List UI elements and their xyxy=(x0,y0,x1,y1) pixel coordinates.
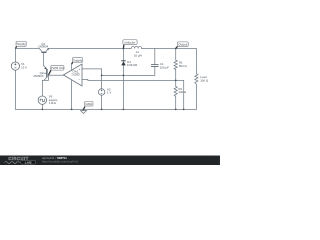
wire top rail right segment xyxy=(142,48,197,50)
wire feedback node horizontal xyxy=(102,74,155,76)
resistor R1 xyxy=(174,60,187,69)
diode D1 xyxy=(121,60,137,67)
inductor L1 xyxy=(131,46,141,57)
svg-text:+: + xyxy=(78,67,80,71)
wire left branch vertical (V1) xyxy=(14,48,16,109)
wire R1 R2 branch xyxy=(175,49,177,110)
wire bottom rail xyxy=(15,108,196,110)
wire V2 branch xyxy=(101,75,103,109)
wire C1 branch xyxy=(154,49,156,76)
svg-text:2N3904: 2N3904 xyxy=(38,45,49,49)
svg-text:1 V: 1 V xyxy=(107,90,111,94)
resistor R2 xyxy=(174,86,187,96)
svg-text:http://circuitlab.com/c/xq67s2: http://circuitlab.com/c/xq67s2 xyxy=(42,159,79,163)
node tag Supply (top left) xyxy=(16,41,27,48)
wire V3 bottom xyxy=(41,104,43,109)
wire diode branch xyxy=(122,49,124,110)
svg-text:TL082: TL082 xyxy=(71,73,80,77)
node tag Output xyxy=(176,42,189,49)
watermark attribution text xyxy=(42,156,79,163)
transistor Q1 xyxy=(38,42,49,66)
wire op-amp minus input long line xyxy=(82,78,184,81)
capacitor C1 xyxy=(151,62,169,69)
svg-text:12 V: 12 V xyxy=(21,65,27,69)
wire op-amp plus input xyxy=(82,69,102,76)
transistor Q2 xyxy=(33,65,47,80)
junction node dots xyxy=(41,48,184,111)
svg-text:Supply: Supply xyxy=(73,58,83,62)
wire op-amp negative supply xyxy=(71,80,73,110)
wire top rail left segment xyxy=(16,47,40,49)
svg-text:GND: GND xyxy=(85,102,93,106)
svg-text:PWM Out: PWM Out xyxy=(51,66,64,70)
svg-text:Inductor: Inductor xyxy=(124,40,135,44)
node tag PWM Out xyxy=(49,65,65,74)
watermark CircuitLab logo xyxy=(4,156,35,164)
svg-text:100 Ω: 100 Ω xyxy=(178,90,187,94)
svg-text:2N3904: 2N3904 xyxy=(33,74,44,78)
voltage source V2 xyxy=(98,87,111,95)
svg-text:1N4148: 1N4148 xyxy=(127,63,138,67)
wire op-amp output xyxy=(48,74,63,76)
wire divider tap drop xyxy=(183,80,185,109)
op-amp OA1 xyxy=(63,64,82,86)
svg-text:Supply: Supply xyxy=(17,42,27,46)
watermark black bar xyxy=(0,155,220,165)
svg-text:500 Ω: 500 Ω xyxy=(179,64,188,68)
svg-text:−: − xyxy=(78,78,80,82)
voltage source V3 (square wave) xyxy=(38,95,58,105)
svg-text:100 μF: 100 μF xyxy=(160,65,169,69)
wire top rail middle segment xyxy=(49,47,132,49)
svg-text:LAB: LAB xyxy=(25,160,33,164)
svg-text:1 kHz: 1 kHz xyxy=(49,101,57,105)
wire op-amp positive supply stub xyxy=(71,64,73,70)
node tag Supply (above op-amp) xyxy=(72,58,83,65)
resistor Load xyxy=(195,74,209,84)
svg-text:Output: Output xyxy=(178,43,187,47)
node tag GND with ground symbol xyxy=(80,101,93,113)
wire output to V3 xyxy=(42,75,48,96)
svg-text:100 Ω: 100 Ω xyxy=(200,79,209,83)
voltage source V1 xyxy=(11,62,27,70)
node tag Inductor xyxy=(123,40,137,49)
svg-text:10 μH: 10 μH xyxy=(134,53,142,57)
wire load branch right xyxy=(195,49,197,110)
